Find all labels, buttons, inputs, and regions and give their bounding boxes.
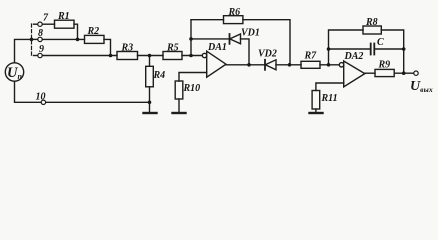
svg-text:Uп: Uп xyxy=(7,65,22,81)
svg-text:VD2: VD2 xyxy=(258,49,277,60)
svg-text:R10: R10 xyxy=(183,83,201,94)
svg-text:8: 8 xyxy=(38,28,43,39)
svg-text:R8: R8 xyxy=(365,17,378,28)
svg-text:R5: R5 xyxy=(166,42,179,53)
svg-text:R3: R3 xyxy=(121,42,134,53)
svg-text:R4: R4 xyxy=(153,70,166,81)
svg-text:R9: R9 xyxy=(378,60,391,71)
svg-text:C: C xyxy=(377,37,384,48)
svg-text:R1: R1 xyxy=(57,11,70,22)
svg-text:R11: R11 xyxy=(321,93,338,104)
svg-text:DA1: DA1 xyxy=(207,42,227,53)
svg-text:Uвых: Uвых xyxy=(410,79,433,94)
svg-text:9: 9 xyxy=(39,44,44,55)
svg-text:VD1: VD1 xyxy=(241,28,260,39)
svg-text:DA2: DA2 xyxy=(344,51,364,62)
svg-text:R7: R7 xyxy=(304,51,318,62)
svg-text:R2: R2 xyxy=(87,26,100,37)
svg-text:7: 7 xyxy=(43,13,49,24)
svg-text:R6: R6 xyxy=(228,7,241,18)
svg-text:10: 10 xyxy=(36,92,46,103)
